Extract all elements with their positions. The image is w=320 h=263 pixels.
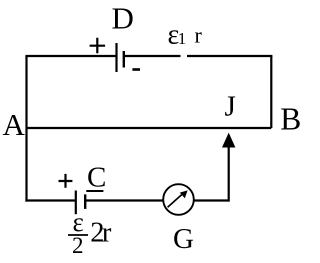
wire: right vertical segment (top corner to B) [270, 56, 272, 128]
galvanometer needle arrowhead [180, 190, 188, 198]
wire: bottom middle segment (battery C to galvanometer) [85, 199, 163, 201]
wire: bottom-left segment (corner to battery C positive plate) [25, 199, 75, 201]
svg-text:r: r [102, 218, 112, 249]
svg-text:r: r [195, 23, 203, 48]
minus sign of battery D [132, 68, 140, 71]
plus sign of battery D [90, 38, 106, 54]
svg-text:D: D [112, 0, 134, 35]
svg-text:A: A [3, 107, 26, 142]
battery C positive plate (long) [75, 191, 77, 215]
svg-text:C: C [87, 162, 106, 194]
wire: left vertical segment (A-column, top wire to bottom wire) [25, 56, 27, 202]
galvanometer G circle [163, 184, 194, 215]
battery D positive plate (long) [115, 43, 117, 72]
wire: top middle segment (battery D to break) [124, 55, 181, 57]
battery C negative plate (short) [84, 194, 86, 209]
battery D negative plate (short) [123, 51, 125, 68]
wire: bottom right segment (galvanometer to riser) [194, 199, 229, 201]
fraction bar of epsilon/2 [68, 234, 88, 236]
wire: middle horizontal A to B [27, 127, 272, 129]
svg-text:J: J [225, 91, 236, 123]
svg-text:2: 2 [72, 233, 84, 258]
arrowhead pointing up at J [222, 133, 235, 148]
galvanometer needle (arrow) [168, 194, 183, 208]
plus sign of battery C [59, 174, 73, 188]
underline of label C [86, 190, 103, 192]
svg-text:B: B [280, 102, 301, 137]
svg-text:1: 1 [178, 29, 187, 48]
svg-text:G: G [173, 223, 194, 255]
wire: top right segment (break to corner B-column) [187, 56, 271, 57]
wire: top-left segment (corner A-column to battery D positive plate) [27, 55, 117, 56]
wire: vertical riser up to J [228, 146, 230, 202]
